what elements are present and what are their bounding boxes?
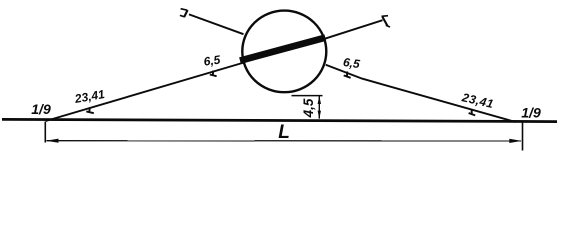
wire: diagonal line A lower-left segment (from left junction to circle)	[46, 63, 244, 122]
frog core: thick diagonal bar through circle	[240, 38, 325, 61]
arrowhead top of 4,5 dimension	[318, 96, 321, 104]
arrowhead right of L dimension	[509, 139, 522, 143]
measurement tick on line A near 23,41 label	[86, 107, 94, 113]
baseline (track axis)	[2, 119, 557, 121]
end tick of line B (upper left)	[180, 9, 188, 17]
vertical dimension line 4,5	[318, 96, 320, 119]
arrowhead left of L dimension	[46, 139, 59, 143]
dimension line L	[47, 140, 522, 142]
svg-text:4,5: 4,5	[301, 98, 316, 118]
extension line left (below left junction)	[44, 122, 46, 143]
svg-text:1/9: 1/9	[521, 104, 541, 120]
measurement tick on line A near left 6,5 label	[210, 71, 217, 77]
wire: diagonal line A upper-right segment (from circle to end tick)	[325, 20, 383, 39]
arrowhead bottom of 4,5 dimension	[318, 111, 321, 119]
svg-text:6,5: 6,5	[342, 55, 361, 71]
svg-text:1/9: 1/9	[31, 101, 51, 117]
svg-text:L: L	[278, 122, 290, 143]
wire: diagonal line B upper-left segment (from end tick to circle)	[189, 14, 244, 34]
end tick of line A (upper right)	[382, 16, 391, 27]
measurement tick on line B near right 23,41 label	[469, 110, 476, 116]
wire: diagonal line B lower-right segment (from circle to right junction)	[326, 65, 516, 122]
svg-text:6,5: 6,5	[203, 53, 222, 69]
cap line for 4,5 dimension	[292, 95, 323, 97]
measurement tick on line B near right 6,5 label	[344, 72, 351, 78]
circle (frog joint)	[242, 11, 326, 93]
extension line right (below right junction)	[522, 123, 524, 151]
